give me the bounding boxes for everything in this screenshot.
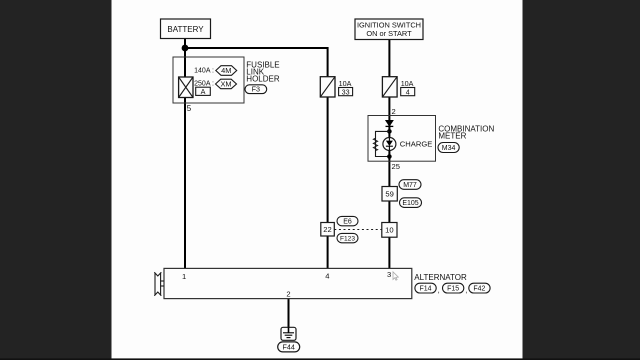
svg-text:2: 2 xyxy=(392,107,396,116)
wire fuse 33 to connector 22 to alternator pin 4 xyxy=(327,96,329,269)
right letterbox bar xyxy=(523,0,640,360)
connector oval E6 xyxy=(337,216,358,225)
svg-text:F42: F42 xyxy=(473,286,485,293)
ground symbol box xyxy=(281,327,296,340)
junction node bottom of lamp branch xyxy=(387,154,392,159)
fusible link holder box xyxy=(173,57,244,103)
junction node at battery xyxy=(182,45,189,52)
svg-text:2: 2 xyxy=(286,290,290,299)
svg-text:METER: METER xyxy=(438,132,466,141)
svg-text:1: 1 xyxy=(182,272,186,281)
fusible link A xyxy=(179,77,193,98)
svg-text:5: 5 xyxy=(187,104,192,113)
connector box 10 xyxy=(382,223,397,238)
svg-text:HOLDER: HOLDER xyxy=(246,75,280,84)
svg-text:CHARGE: CHARGE xyxy=(400,140,433,149)
combination meter box xyxy=(368,116,436,162)
svg-text:F123: F123 xyxy=(340,236,355,243)
diode D1 xyxy=(386,120,394,126)
svg-text:33: 33 xyxy=(342,87,350,96)
fuse 4 xyxy=(382,77,397,97)
svg-text:4M: 4M xyxy=(221,66,231,75)
svg-text:59: 59 xyxy=(385,190,393,199)
dotted harness link between 22 and 10 xyxy=(334,229,382,231)
connector hexagon 4M xyxy=(216,66,237,76)
svg-text:10: 10 xyxy=(385,226,393,235)
resistor branch wire xyxy=(376,131,390,156)
svg-text:,: , xyxy=(438,286,440,295)
svg-text:25: 25 xyxy=(392,162,400,171)
mouse cursor xyxy=(393,272,398,280)
svg-text:22: 22 xyxy=(323,225,331,234)
svg-text:ON or START: ON or START xyxy=(366,29,412,38)
svg-text:E105: E105 xyxy=(402,200,418,207)
svg-text:140A :: 140A : xyxy=(194,67,214,74)
junction node top of lamp branch xyxy=(387,129,392,134)
svg-text:F14: F14 xyxy=(419,286,431,293)
fuse 33 xyxy=(320,77,335,97)
label COMBINATION METER xyxy=(438,124,494,140)
svg-text:F44: F44 xyxy=(283,342,295,351)
svg-text:4: 4 xyxy=(406,87,410,96)
connector oval F3 xyxy=(245,85,267,94)
alternator box xyxy=(164,268,412,298)
wire alternator pin 2 to ground xyxy=(288,299,290,334)
svg-text:ALTERNATOR: ALTERNATOR xyxy=(414,273,467,282)
connector oval E105 xyxy=(400,198,422,208)
connector oval M34 xyxy=(438,143,459,153)
svg-text:E6: E6 xyxy=(343,219,352,226)
resistor R1 zigzag xyxy=(373,138,377,150)
connector oval F44 xyxy=(278,342,300,352)
fuse number box 4 xyxy=(401,87,415,96)
connector oval F42 xyxy=(469,283,490,293)
wire battery junction to fuse 33 xyxy=(185,48,328,77)
charge lamp L1 xyxy=(383,138,396,151)
wire battery to fusible link to alternator pin 1 xyxy=(184,39,186,269)
svg-text:A: A xyxy=(201,87,206,96)
svg-text:F15: F15 xyxy=(447,286,459,293)
label FUSIBLE LINK HOLDER xyxy=(246,60,280,83)
connector box 59 xyxy=(382,187,397,202)
svg-text:M77: M77 xyxy=(403,182,417,189)
connector oval F15 xyxy=(443,283,464,293)
bottom frame line xyxy=(0,358,640,360)
svg-text:,: , xyxy=(465,286,467,295)
wire ignition switch to fuse 4 xyxy=(388,40,390,78)
svg-text:4: 4 xyxy=(325,271,329,280)
terminal box A xyxy=(196,87,211,96)
svg-text:BATTERY: BATTERY xyxy=(167,25,204,34)
connector oval F14 xyxy=(415,283,436,293)
svg-text:F3: F3 xyxy=(252,85,260,94)
connector oval F123 xyxy=(337,233,358,242)
svg-text:XM: XM xyxy=(220,80,231,89)
svg-text:3: 3 xyxy=(387,270,391,279)
wire fuse 4 to combination meter and to alternator pin 3 xyxy=(388,96,390,269)
connector oval M77 xyxy=(399,180,421,190)
left letterbox bar xyxy=(0,0,112,360)
svg-text:M34: M34 xyxy=(442,145,456,152)
connector hexagon XM xyxy=(216,79,237,89)
connector box 22 xyxy=(321,223,335,237)
alternator pulley symbol xyxy=(154,272,164,296)
battery B1 xyxy=(161,19,211,39)
fuse number box 33 xyxy=(339,87,353,96)
ignition switch SW1 xyxy=(355,19,423,40)
